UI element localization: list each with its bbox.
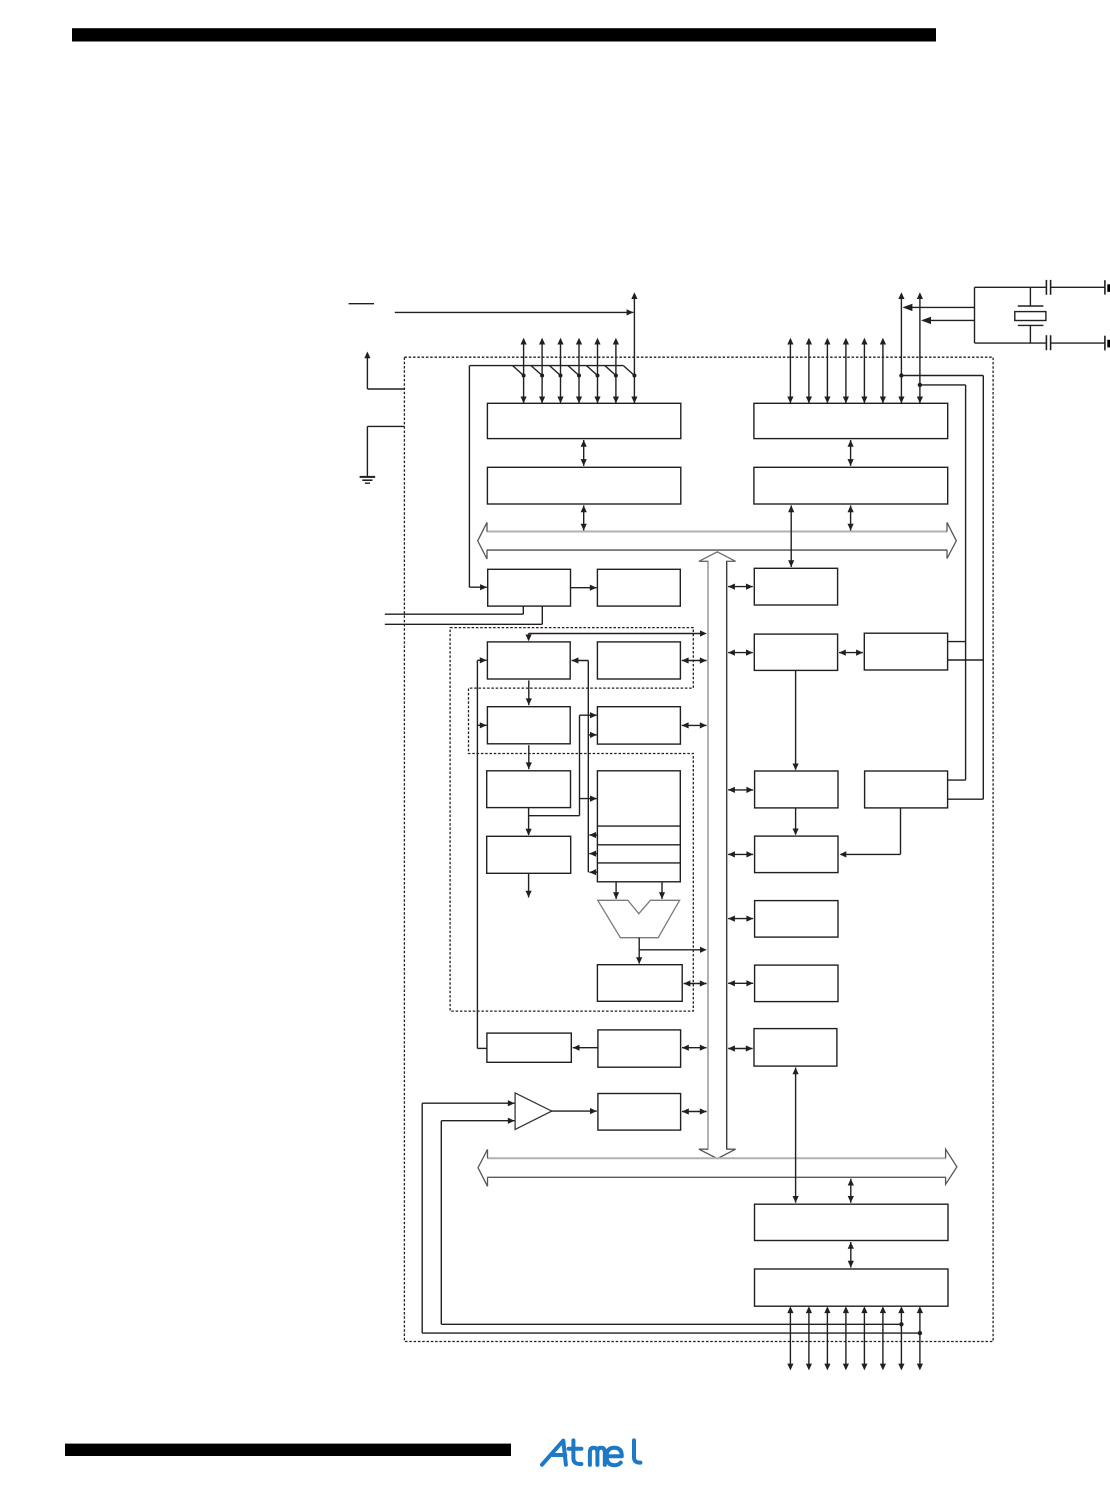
data register PORTD <-> data bus	[850, 505, 852, 530]
port B pin 4 junction dot	[596, 374, 600, 378]
XTAL1 route down	[965, 385, 967, 780]
program flash -> next stage	[528, 680, 530, 705]
upper data bus bottom edge	[487, 549, 948, 551]
port D pin 1 line (bidirectional)	[808, 343, 810, 403]
crystal bottom rail	[975, 342, 1046, 344]
C1 ground stub bar	[1104, 280, 1106, 294]
AIN1 loop wire bottom	[441, 1323, 901, 1325]
analog comparator triangle	[515, 1093, 552, 1130]
SRAM <-> MCU control	[839, 652, 863, 654]
instruction decoder box	[487, 836, 571, 873]
port B pin 5 line (bidirectional)	[615, 343, 617, 403]
MCU control & timing box (right col C)	[864, 633, 947, 670]
GND wire from chip border	[367, 425, 404, 427]
SRAM -> control register wire	[795, 670, 797, 769]
Z register to indirect rail	[589, 871, 597, 873]
vertical data bus top arrowhead	[699, 552, 736, 562]
AIN1 loop wire down	[440, 1121, 442, 1325]
VCC label underline	[349, 303, 374, 305]
data register PORTD <-> stack pointer (crosses bus)	[790, 505, 792, 567]
timer/counter box (row7 right)	[754, 1029, 837, 1067]
X register to indirect rail	[589, 834, 597, 836]
capacitor C1 plate b	[1050, 280, 1052, 295]
RESET wire 1	[385, 613, 524, 615]
data bus <-> SRAM	[728, 652, 753, 654]
port B pin 4 slash tick	[587, 366, 598, 376]
data register PORTB box	[487, 467, 680, 504]
port D bottom pin 3 line (bidirectional)	[845, 1312, 847, 1365]
port D pin 0 line (bidirectional)	[789, 343, 791, 403]
PORTD drivers <-> data register	[850, 440, 852, 466]
register file divider Y	[597, 844, 680, 846]
port D bottom pin 1 line (bidirectional)	[808, 1312, 810, 1365]
ALU trapezoid	[598, 900, 680, 937]
oscillator clock wire to timing	[900, 808, 902, 855]
VCC pin arrow (up)	[366, 358, 368, 390]
XTAL1 route right	[920, 384, 966, 386]
EEPROM -> SPI unit	[573, 1047, 598, 1049]
data dir register PORTD box (bottom)	[755, 1269, 949, 1306]
register file box	[597, 771, 680, 882]
crystal bottom rail right	[1051, 342, 1105, 344]
upper data bus left arrow	[478, 522, 487, 559]
C2 ground stub bar	[1104, 336, 1106, 351]
XTAL2 stub to arrow	[908, 306, 975, 308]
RESET wire 2 riser	[541, 606, 543, 624]
loop rail into instruction register	[477, 724, 486, 726]
instruction register -> decoder wire	[528, 808, 530, 835]
XTAL1 stub into oscillator	[948, 779, 966, 781]
Y register to indirect rail	[589, 853, 597, 855]
lower data bus <-> data register PORTD	[850, 1179, 852, 1203]
loop rail into program flash	[477, 659, 486, 661]
instruction register box	[487, 771, 571, 808]
row3 left -> row4	[528, 745, 530, 769]
crystal Y1 top electrode	[1018, 305, 1044, 307]
port D pin 5 line (bidirectional)	[882, 343, 884, 403]
XTAL1 stub into timing block	[948, 641, 966, 643]
crystal Y1 top lead	[1029, 287, 1031, 306]
vertical data bus shaft right edge	[726, 561, 728, 1150]
registers -> ALU right input	[661, 882, 663, 899]
MCU control register -> timer wire	[795, 808, 797, 835]
port D pin 6 line (bidirectional)	[900, 298, 902, 404]
crystal Y1 bottom electrode	[1018, 324, 1044, 326]
upper data bus top edge	[487, 531, 948, 533]
RESET wire 1 riser	[522, 606, 524, 614]
lower data bus right arrow	[946, 1149, 957, 1184]
port B pin 6 junction dot	[632, 374, 636, 378]
upper data bus right arrow	[947, 522, 956, 558]
crystal top rail right	[1051, 286, 1105, 288]
port B pin 3 line (bidirectional)	[578, 343, 580, 403]
direct addressing into GP registers upper	[580, 714, 597, 716]
XTAL2 route right	[901, 375, 983, 377]
port B pin 0 line (bidirectional)	[523, 343, 525, 403]
EEPROM box (row7 mid)	[598, 1030, 681, 1067]
port B pin 0 junction dot	[522, 374, 526, 378]
SRAM box (right col B)	[754, 634, 837, 670]
XTAL1 arrowhead into chip	[921, 317, 931, 324]
port D bottom pin 5 line (bidirectional)	[882, 1312, 884, 1365]
register file divider X	[597, 825, 680, 827]
port D pin 4 line (bidirectional)	[863, 343, 865, 403]
timer/counter <-> data register PORTB (long)	[795, 1068, 797, 1203]
footer rule bar	[65, 1444, 511, 1456]
AIN1 tap on pin PD6	[899, 1322, 903, 1326]
PORTB drivers <-> data register	[583, 440, 585, 466]
vertical data bus bottom arrowhead	[699, 1149, 736, 1158]
capacitor C1 plate a	[1045, 280, 1047, 295]
AIN0 tap on pin PD7	[918, 1331, 922, 1335]
indirect addressing into program flash	[572, 660, 589, 662]
data bus <-> stack pointer	[728, 586, 753, 588]
SRAM <-> data bus	[682, 660, 707, 662]
port D pin 3 line (bidirectional)	[845, 343, 847, 403]
ALU result wire	[638, 938, 640, 964]
XTAL1 stub to arrow	[926, 319, 975, 321]
port B pin 1 slash tick	[531, 366, 542, 376]
PORTB drivers box	[487, 403, 680, 438]
ground symbol bar 2	[362, 479, 372, 481]
program counter box	[488, 569, 571, 606]
AIN0 loop wire bottom	[422, 1332, 920, 1334]
status register box	[597, 965, 682, 1002]
lower data bus left arrow	[478, 1149, 488, 1186]
register file divider Z	[597, 862, 680, 864]
direct addressing rail	[579, 715, 581, 816]
data bus <-> interrupt unit	[728, 918, 753, 920]
port B pin 6 line (bidirectional)	[633, 298, 635, 404]
AIN0 loop wire down	[421, 1103, 423, 1333]
lower data bus top edge	[487, 1157, 946, 1159]
program flash write wire	[529, 633, 704, 635]
direct addressing into register file	[580, 798, 597, 800]
timing and control box (right col E)	[755, 836, 838, 873]
XTAL2 stub into oscillator	[948, 798, 984, 800]
port B pin 5 junction dot	[614, 374, 618, 378]
registers -> ALU left input	[615, 882, 617, 899]
PORTD drivers box	[754, 403, 948, 438]
control lines arrow	[528, 873, 530, 897]
loop rail into SPI box	[477, 1047, 487, 1049]
EEPROM <-> data bus	[682, 1047, 707, 1049]
data register <-> data dir register PORTD	[850, 1242, 852, 1268]
general purpose registers box (row3 right)	[597, 707, 680, 744]
program counter -> stack pointer	[571, 587, 597, 589]
port B pin 5 slash tick	[605, 366, 616, 376]
port B pin 2 slash tick	[550, 366, 561, 376]
data bus <-> serial UART	[728, 982, 753, 984]
data register PORTB <-> data bus	[583, 505, 585, 530]
comparator interface <-> data bus	[682, 1111, 707, 1113]
header rule bar	[72, 28, 936, 41]
comparator output	[551, 1110, 597, 1112]
port B pin 6 slash tick	[623, 366, 634, 376]
comparator interface box (row8)	[598, 1094, 681, 1131]
C2 ground pad (page-edge)	[1107, 340, 1110, 348]
port B pin 2 junction dot	[559, 374, 563, 378]
port D bottom pin 2 line (bidirectional)	[826, 1312, 828, 1365]
port B pin 0 slash tick	[513, 366, 524, 376]
port B pin 3 junction dot	[577, 374, 581, 378]
XTAL2 junction dot	[899, 373, 903, 377]
crystal net left vertical	[974, 287, 976, 343]
stack pointer box (right col A)	[754, 568, 837, 605]
indirect addressing into GP registers lower	[588, 734, 597, 736]
XTAL2 stub into timing block	[948, 659, 984, 661]
data bus <-> timing and control	[728, 853, 753, 855]
data register PORTD box (bottom)	[755, 1204, 949, 1240]
stack pointer box (row1 right)	[597, 569, 680, 606]
SRAM box (row2 right)	[597, 642, 680, 679]
serial UART box (right col H)	[755, 965, 838, 1002]
ground symbol bar 1	[360, 476, 376, 478]
AVR CPU region (dashed, notched)	[450, 628, 693, 1012]
XTAL2 arrowhead into chip	[902, 304, 912, 311]
lower data bus bottom edge	[487, 1176, 946, 1178]
row3 right <-> data bus	[682, 724, 707, 726]
capacitor C2 plate b	[1050, 335, 1052, 350]
instruction register tap	[529, 815, 580, 817]
status register <-> data bus	[684, 983, 707, 985]
pin rail into program counter	[469, 586, 487, 588]
program flash box	[487, 642, 570, 679]
instruction register box (row3 left)	[487, 707, 570, 744]
VCC wire into chip border	[367, 388, 404, 390]
ground symbol bar 3	[365, 482, 370, 484]
port D pin 7 line (bidirectional)	[919, 298, 921, 404]
port B pin 2 line (bidirectional)	[560, 343, 562, 403]
pin rail left drop	[468, 366, 470, 588]
C1 ground pad (page-edge)	[1107, 284, 1110, 292]
port B pin collector rail	[469, 365, 623, 367]
data bus <-> I/O lines box	[728, 1048, 753, 1050]
XTAL1 junction dot	[918, 383, 922, 387]
data bus <-> MCU control register	[728, 789, 753, 791]
chip boundary (dashed)	[404, 357, 993, 1341]
MCU control register box (right col D)	[755, 771, 838, 808]
oscillator box (right col F)	[865, 771, 948, 808]
port D bottom pin 7 line (bidirectional)	[919, 1312, 921, 1365]
data register PORTD box	[754, 467, 948, 504]
capacitor C2 plate a	[1045, 335, 1047, 350]
port D pin 2 line (bidirectional)	[826, 343, 828, 403]
port B pin 3 slash tick	[568, 366, 579, 376]
crystal Y1 bottom lead	[1029, 325, 1031, 343]
AIN0 input arrow	[422, 1102, 514, 1104]
interrupt unit box (right col G)	[755, 901, 838, 938]
port D bottom pin 0 line (bidirectional)	[789, 1312, 791, 1365]
programming loop rail	[476, 660, 478, 1048]
crystal Y1 body	[1015, 312, 1046, 321]
VCC supply wire to PB7 pin	[395, 311, 634, 313]
SPI unit box (row7 left)	[487, 1033, 571, 1062]
port D bottom pin 6 line (bidirectional)	[900, 1312, 902, 1365]
indirect addressing rail	[587, 661, 589, 873]
port B pin 4 line (bidirectional)	[597, 343, 599, 403]
port B pin 1 line (bidirectional)	[541, 343, 543, 403]
Atmel logo	[542, 1440, 640, 1465]
vertical data bus shaft left edge	[707, 561, 709, 1150]
RESET wire 2	[385, 623, 543, 625]
port D bottom pin 4 line (bidirectional)	[863, 1312, 865, 1365]
port B pin 1 junction dot	[540, 374, 544, 378]
crystal top rail	[975, 286, 1046, 288]
AIN1 input arrow	[441, 1120, 514, 1122]
XTAL2 route down	[982, 376, 984, 800]
GND wire down	[366, 426, 368, 476]
